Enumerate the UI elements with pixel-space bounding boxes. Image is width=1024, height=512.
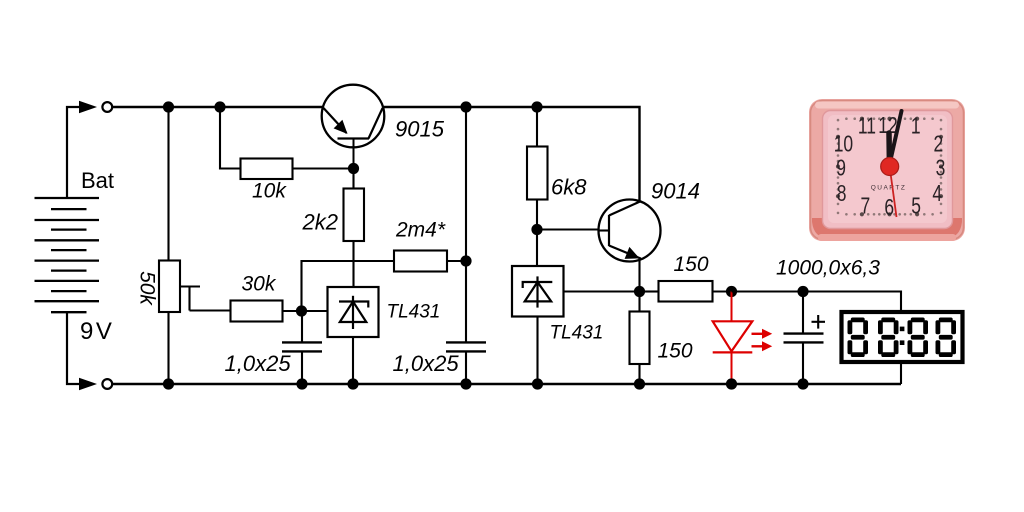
svg-text:7: 7 [860,195,870,220]
resistor 30k [231,301,283,322]
svg-text:3: 3 [936,157,946,182]
svg-text:TL431: TL431 [550,323,604,344]
terminal circle + [102,102,112,112]
wire 50k bottom lead [167,312,169,384]
node 50k ground [163,378,174,389]
trimmer 50k [159,261,231,313]
clock photo: numerals [834,114,946,221]
node U1 ground [347,378,358,389]
svg-text:10k: 10k [252,180,287,203]
svg-text:150: 150 [674,253,709,276]
wire 2k2 to TL431 U1 cathode [352,241,354,287]
svg-text:QUARTZ: QUARTZ [871,185,907,192]
wire top rail left [113,106,323,108]
capacitor C1 1,0x25 [282,311,322,384]
svg-text:10: 10 [834,132,853,157]
svg-text:9014: 9014 [651,179,700,204]
wire 6k8 to base node / U2 [536,200,538,267]
svg-text:4: 4 [932,182,942,207]
node output rail / C2 [460,101,471,112]
svg-text:50k: 50k [136,271,159,306]
terminal arrow + [79,101,97,114]
clock photo: hub [881,158,899,176]
resistor 150 horizontal [645,281,732,302]
node C1 ground [296,378,307,389]
node top of 50k [163,101,174,112]
resistor 10k [241,159,293,180]
wire bottom rail [113,383,901,385]
wire 2m4 to output rail [447,260,466,262]
node emitter / U2 ref [634,286,645,297]
resistor 2k2 [344,189,365,242]
transistor Q2 9014 [599,200,661,262]
svg-text:150: 150 [658,340,693,363]
svg-text:2: 2 [934,132,944,157]
node feedback [296,305,307,316]
shunt regulator U2 TL431 [512,266,564,317]
LED VD1 (red) [713,292,773,385]
clock photo: body [809,99,965,241]
shunt regulator U1 TL431 [328,287,379,337]
node base 9015 [348,163,359,174]
wire 10k to base node [293,167,354,169]
clock photo: minute ticks [836,117,943,217]
wire LED node to display top [732,292,902,311]
transistor Q1 9015 [322,85,385,169]
wire 50k top lead [167,107,169,261]
svg-text:1,0x25: 1,0x25 [225,351,292,376]
svg-text:6: 6 [884,196,894,221]
node 9014 base [531,224,542,235]
svg-text:1,0x25: 1,0x25 [393,351,460,376]
svg-text:TL431: TL431 [387,302,441,323]
svg-text:9: 9 [836,157,846,182]
node U2 ground [532,378,543,389]
svg-text:6k8: 6k8 [551,175,587,200]
svg-text:30k: 30k [242,273,277,296]
svg-text:2m4*: 2m4* [395,219,446,242]
node 2m4 / C2 [460,255,471,266]
wire U1 anode to ground [352,337,354,384]
node LED bottom [726,378,737,389]
wire C2 / 2m4 vertical [465,107,467,342]
node C3 ground [797,378,808,389]
clock photo: bottom shade [812,218,962,238]
node 6k8 top [531,101,542,112]
wire U2 ref to emitter node [564,290,640,292]
terminal arrow - [79,378,97,391]
svg-text:Bat: Bat [81,168,114,193]
wire display bottom lead [900,364,902,384]
svg-text:5: 5 [911,195,921,220]
svg-text:11: 11 [858,114,876,139]
svg-text:9015: 9015 [395,117,445,142]
resistor 150 vertical [630,292,650,385]
resistor 6k8 [527,147,548,200]
wire top rail right + down to 9014 collector [383,107,639,202]
clock photo: hour hand [886,133,892,169]
wire U2 anode to ground [536,317,538,385]
capacitor C2 1,0x25 [446,342,486,384]
wire to 9014 base [537,228,599,230]
node 150 ground [634,378,645,389]
svg-text:9V: 9V [80,318,114,345]
clock photo: top highlight [815,102,959,109]
node C2 ground [460,378,471,389]
wire 30k to feedback node, on to U1 ref [283,310,328,312]
wire 6k8 top lead [536,107,538,147]
svg-text:2k2: 2k2 [302,210,338,235]
node C3 top [797,286,808,297]
wire feedback node up to 2m4 [302,261,395,311]
svg-text:1000,0x6,3: 1000,0x6,3 [776,257,880,280]
wire battery top stub to + terminal [67,107,80,198]
terminal circle - [102,379,112,389]
resistor 2m4* [394,251,447,272]
wire to 10k [220,107,241,169]
wire base node to 2k2 [352,169,354,189]
node LED top [726,286,737,297]
svg-text:8: 8 [837,182,847,207]
wire battery bottom stub to - terminal [67,312,80,384]
clock photo: dial [823,111,953,229]
node 10k branch [214,101,225,112]
clock photo: minute hand [889,111,902,169]
clock photo: second hand [889,162,897,217]
wire 9014 emitter down [638,260,640,292]
battery Bat 9V [35,198,100,312]
svg-text:1: 1 [911,114,921,139]
capacitor C3 1000,0x6,3 [784,292,826,385]
digital display 88:88 [842,312,963,362]
